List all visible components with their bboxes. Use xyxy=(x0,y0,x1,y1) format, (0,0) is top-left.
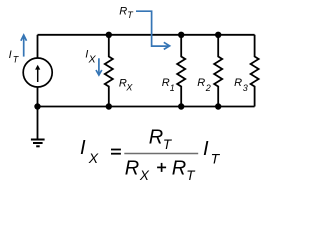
svg-text:T: T xyxy=(186,168,196,183)
svg-text:X: X xyxy=(125,83,133,93)
svg-text:T: T xyxy=(127,10,134,20)
svg-text:I: I xyxy=(80,137,86,159)
svg-text:3: 3 xyxy=(243,83,248,93)
svg-text:R: R xyxy=(162,77,170,89)
svg-text:X: X xyxy=(139,168,150,183)
svg-text:I: I xyxy=(203,138,209,160)
svg-text:R: R xyxy=(149,127,163,149)
svg-text:T: T xyxy=(211,151,221,167)
svg-text:R: R xyxy=(234,77,242,89)
svg-text:R: R xyxy=(197,77,205,89)
svg-text:T: T xyxy=(163,137,173,152)
svg-text:1: 1 xyxy=(170,83,175,93)
svg-text:2: 2 xyxy=(205,83,211,93)
svg-text:I: I xyxy=(9,49,12,61)
svg-text:T: T xyxy=(13,54,20,64)
svg-text:X: X xyxy=(88,150,99,166)
svg-text:R: R xyxy=(125,158,139,180)
svg-text:R: R xyxy=(172,158,186,180)
svg-text:R: R xyxy=(119,6,127,18)
svg-text:X: X xyxy=(88,54,97,66)
